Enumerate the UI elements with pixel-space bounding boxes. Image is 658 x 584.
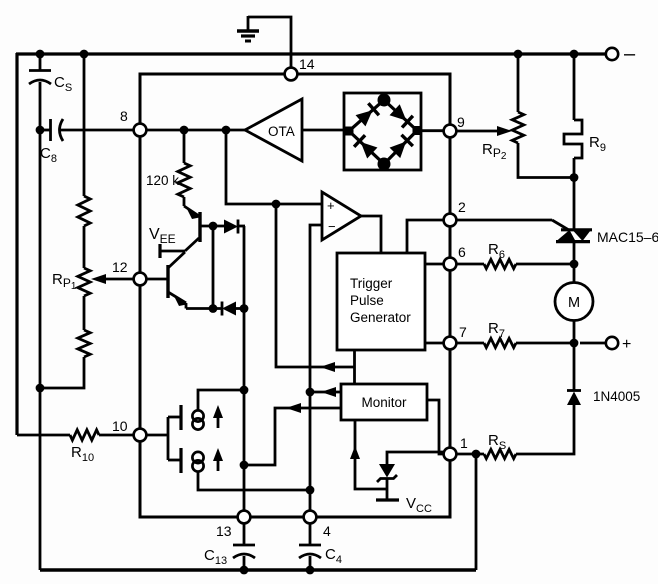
- transistor Q2 base bar: [166, 265, 169, 298]
- block Monitor: [341, 384, 427, 420]
- node dot top rail / Cs branch: [36, 50, 45, 59]
- wire ground to pin 14: [248, 17, 291, 68]
- block Trigger Pulse Generator: [337, 253, 425, 350]
- wiper arrow from pin 12 to RP1: [104, 278, 134, 281]
- pin 14: [285, 68, 298, 81]
- motor M: [555, 283, 593, 321]
- svg-text:OTA: OTA: [268, 124, 295, 139]
- svg-text:−: −: [328, 219, 336, 234]
- capacitor C13: [243, 523, 246, 545]
- bridge diode bottom-right: [389, 135, 413, 159]
- wire RP2 bottom: [518, 143, 574, 178]
- node dot top rail / RP2 branch: [514, 50, 523, 59]
- wire Q1 base to diode D1: [200, 225, 224, 228]
- transistor Q2 collector: [168, 252, 185, 268]
- node dot pin 1 / bottom rail branch: [472, 450, 481, 459]
- wire R10 to pin 10: [99, 434, 134, 437]
- wire RP1 mid1: [83, 226, 86, 268]
- wire monitor lower output: [244, 408, 341, 465]
- pin 9: [444, 125, 457, 138]
- node dot RP2/R9 junction: [570, 173, 579, 182]
- node dot Q1 base / D1: [209, 222, 218, 231]
- svg-text:120 k: 120 k: [146, 173, 179, 188]
- wire diode column to pin 13: [243, 308, 246, 511]
- bridge node top: [378, 94, 391, 107]
- op-amp U1 OTA: [245, 99, 302, 161]
- terminal plus (right): [580, 342, 605, 345]
- wire 120k to Q1 emitter: [183, 197, 186, 206]
- wire trigger to pin 2: [407, 220, 444, 253]
- wire pin 8 to OTA input: [146, 129, 245, 132]
- wire left outer to R10: [17, 434, 70, 437]
- wire R9 bottom: [573, 158, 576, 230]
- supply VEE bar: [158, 244, 161, 258]
- resistor R6: [484, 259, 516, 268]
- pin 7: [444, 337, 457, 350]
- transistor Q2 emitter with arrow: [168, 292, 186, 303]
- wire pin 6 to R6: [456, 263, 484, 266]
- current source CS2 gate bar: [179, 448, 182, 473]
- bridge node bottom: [378, 158, 391, 171]
- pin 4: [304, 511, 317, 524]
- node dot current source column: [240, 461, 249, 470]
- wire pin 9 to RP2 wiper: [456, 130, 498, 133]
- transistor Q1 emitter arrow: [184, 206, 199, 216]
- resistor 120k: [178, 163, 190, 197]
- resistor R9 meander: [564, 120, 582, 158]
- wire RP2 top: [517, 54, 520, 112]
- transistor Q1 collector: [185, 238, 199, 251]
- node dot D2 right: [240, 304, 249, 313]
- current source CS1 arrow: [217, 410, 220, 428]
- diode D1 (points right): [224, 220, 238, 234]
- svg-text:M: M: [568, 295, 580, 311]
- pin 13: [238, 511, 251, 524]
- wire top negative supply rail: [16, 52, 611, 55]
- current source CS2 circles: [192, 452, 203, 463]
- svg-text:+: +: [327, 198, 335, 213]
- svg-text:14: 14: [299, 56, 315, 72]
- diode D2 (points left): [221, 302, 224, 316]
- wire R6 to motor column: [516, 263, 574, 266]
- wire left outer vertical (top rail to R10): [15, 53, 18, 435]
- wire RP1 mid2: [83, 296, 86, 330]
- op-amp U2 comparator: [322, 192, 361, 240]
- bridge diode top-left: [355, 103, 379, 127]
- wire pin 1 node to bottom rail: [475, 454, 478, 570]
- wire pin 1 to zener: [387, 452, 444, 465]
- node dot feedback tap on plus input: [272, 200, 281, 209]
- pin 2: [444, 214, 457, 227]
- wire diode column right upper: [243, 226, 246, 308]
- diode 1N4005: [567, 389, 581, 392]
- current source CS1 circles: [192, 410, 203, 421]
- pin 6: [444, 258, 457, 271]
- potentiometer RP2: [512, 112, 524, 143]
- node dot comparator branch tap: [222, 126, 231, 135]
- wire Cs branch upper: [39, 53, 42, 70]
- wire 120k upper: [183, 130, 186, 163]
- capacitor CS: [29, 69, 51, 72]
- svg-text:1: 1: [460, 435, 468, 451]
- node dot motor / R7 / plus: [570, 339, 579, 348]
- wire R9 top: [573, 54, 576, 120]
- node dot top rail / R9 branch: [570, 50, 579, 59]
- wire bottom rail: [40, 568, 476, 571]
- svg-text:Generator: Generator: [350, 310, 411, 325]
- wire pin 7 to R7: [456, 342, 484, 345]
- wire RP1 top: [83, 54, 86, 196]
- bridge diode bottom-left: [354, 135, 378, 159]
- wire monitor to minus column with arrow: [310, 391, 341, 394]
- pin 10: [134, 429, 147, 442]
- wire trigger to pin 7: [425, 342, 444, 345]
- bridge node right: [413, 126, 422, 135]
- node dot top rail / RP1 branch: [80, 50, 89, 59]
- wire monitor right to pin 1: [427, 400, 444, 454]
- IC package outline: [140, 74, 450, 517]
- wire bridge to pin 9: [421, 129, 444, 132]
- node dot minus column / monitor: [306, 388, 315, 397]
- svg-text:7: 7: [459, 324, 467, 340]
- wire CS2 bottom to pin 4 column: [198, 471, 310, 490]
- resistor RS: [484, 449, 516, 458]
- node dot RP1 bottom tap: [36, 384, 45, 393]
- bridge diamond wires: [349, 100, 417, 164]
- wire R7 to plus node: [516, 342, 574, 345]
- potentiometer RP1 wiper section: [78, 268, 90, 296]
- terminal minus (top right): [606, 48, 618, 60]
- wire pin 10 to current sources: [146, 434, 168, 437]
- ground symbol: [247, 16, 250, 31]
- wire trigger bottom to monitor top: [353, 350, 356, 384]
- node dot 120k tap: [180, 126, 189, 135]
- bridge diode top-right: [389, 104, 413, 128]
- current source CS1 gate bar: [179, 405, 182, 430]
- svg-text:Trigger: Trigger: [350, 276, 393, 291]
- wire trigger feedback to plus-input column: [276, 204, 355, 367]
- node dot Q2 emitter / D2: [209, 304, 218, 313]
- current source bracket: [167, 417, 170, 460]
- node dot C8 tap: [36, 126, 45, 135]
- svg-text:13: 13: [216, 523, 232, 539]
- svg-text:MAC15–6: MAC15–6: [597, 229, 658, 245]
- triac MAC15-6: [561, 228, 592, 231]
- wire comparator minus input: [310, 225, 322, 511]
- capacitor C4: [309, 523, 312, 545]
- wire Cs to C8 node: [39, 82, 42, 570]
- resistor RP1 upper section: [78, 196, 90, 226]
- svg-text:–: –: [624, 43, 636, 65]
- wire monitor bias branch: [355, 420, 387, 489]
- node dot C13 / bottom rail: [240, 566, 249, 575]
- svg-text:8: 8: [120, 108, 128, 124]
- resistor R10: [70, 430, 99, 440]
- svg-text:10: 10: [112, 418, 128, 434]
- wire motor to plus node: [573, 321, 576, 391]
- wire OTA to bridge: [302, 129, 345, 132]
- pin 12: [134, 273, 147, 286]
- node dot pin4 column / CS2: [306, 486, 315, 495]
- svg-text:2: 2: [458, 199, 466, 215]
- svg-text:1N4005: 1N4005: [593, 389, 640, 404]
- diode bridge outline: [344, 93, 421, 170]
- svg-text:6: 6: [458, 244, 466, 260]
- resistor R7: [484, 338, 516, 347]
- wire trigger to pin 6: [425, 263, 444, 266]
- wire 1N4005 to RS: [516, 405, 574, 454]
- node dot diode column / CS1: [240, 386, 249, 395]
- svg-text:+: +: [622, 336, 631, 353]
- transistor Q1 base bar: [198, 212, 201, 242]
- node dot C4 / bottom rail: [306, 566, 315, 575]
- svg-text:4: 4: [323, 523, 331, 539]
- svg-text:9: 9: [457, 114, 465, 130]
- wire pin 2 to triac gate: [456, 219, 552, 222]
- svg-text:12: 12: [112, 259, 128, 275]
- pin 8: [134, 124, 147, 137]
- wire diode column mid: [212, 226, 215, 308]
- supply VCC bar: [376, 498, 399, 501]
- wire RP1 bottom to node: [40, 357, 84, 388]
- pin 1: [444, 448, 457, 461]
- zener diode DZ: [379, 464, 395, 478]
- wire comparator output to trigger box: [361, 216, 381, 253]
- wire RS to pin 1: [456, 453, 484, 456]
- wire pin 12 to Q2 base: [146, 278, 168, 281]
- svg-text:Monitor: Monitor: [361, 395, 407, 410]
- node dot triac / R6: [570, 260, 579, 269]
- capacitor C8: [40, 129, 50, 132]
- wire CS1 top to diode column: [198, 390, 244, 411]
- svg-text:Pulse: Pulse: [350, 293, 384, 308]
- wire OTA tap down to comparator plus: [226, 130, 322, 204]
- wire Q2 emitter to D2: [186, 307, 222, 310]
- current source CS2 arrow: [217, 453, 220, 471]
- resistor RP1 lower section: [78, 330, 90, 357]
- wire triac to motor node: [573, 241, 576, 283]
- bridge node left: [345, 127, 354, 136]
